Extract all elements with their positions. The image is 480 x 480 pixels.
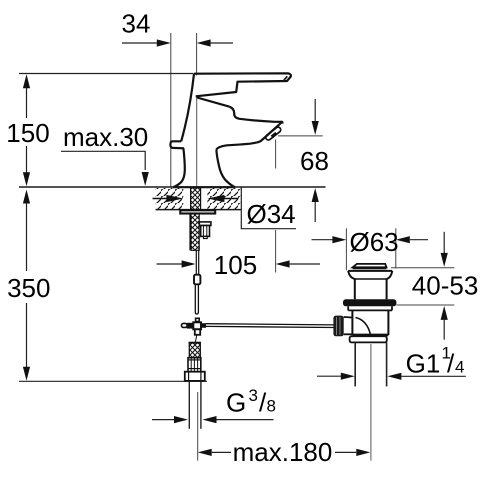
dim 34 left arrow bbox=[122, 39, 171, 46]
dim 105 extension line (spout outlet centre) bbox=[275, 140, 277, 169]
aerator dark slot bbox=[271, 132, 277, 138]
G3/8 right arrow with leader bbox=[203, 416, 274, 423]
adapter collar bbox=[188, 358, 201, 372]
svg-text:Ø34: Ø34 bbox=[247, 199, 296, 229]
knob stem bbox=[344, 317, 353, 334]
spout tip slant edge bbox=[257, 122, 283, 143]
faucet centreline bbox=[196, 97, 198, 187]
dim 34 extension line right (x=196.6) bbox=[196, 33, 198, 76]
dim 105 left arrow bbox=[157, 260, 196, 267]
dim 68 down arrow bbox=[312, 99, 319, 135]
dim Ø63 right arrow bbox=[396, 236, 428, 243]
dim 40-53 up arrow bbox=[441, 306, 448, 340]
side fitting body bbox=[201, 226, 210, 237]
dim Ø63 extension lines bbox=[345, 228, 347, 270]
pivot cross body bbox=[193, 322, 201, 329]
pull rod joint cylinder bbox=[194, 275, 200, 285]
deck hatched section left bbox=[156, 188, 184, 209]
washer under deck bbox=[180, 210, 215, 213]
faucet body right edge bbox=[216, 150, 235, 188]
max.180 line left with arrow bbox=[198, 449, 231, 456]
waste rubber seal bbox=[343, 299, 396, 306]
deck hatched section right bbox=[207, 188, 241, 209]
bottom reference line bbox=[19, 380, 207, 382]
dim 40-53 down arrow bbox=[441, 232, 448, 267]
side fitting notch bbox=[204, 236, 208, 238]
waste centreline bbox=[370, 344, 372, 461]
pivot top stub bbox=[196, 318, 200, 321]
svg-text:G1: G1 bbox=[406, 349, 441, 379]
svg-text:/: / bbox=[447, 349, 455, 379]
lever tip bevel line bbox=[284, 76, 288, 80]
dim 34 right arrow bbox=[197, 39, 233, 46]
waste neck line bbox=[355, 278, 387, 280]
svg-text:max.30: max.30 bbox=[63, 122, 148, 152]
dim 350 vertical line with arrows bbox=[23, 190, 30, 381]
faucet base left edge bbox=[173, 148, 185, 187]
dim 34 extension line left (x=170.8) bbox=[170, 33, 172, 187]
hex nut bbox=[185, 372, 205, 381]
svg-text:4: 4 bbox=[455, 358, 464, 377]
hole arrow right bbox=[207, 195, 238, 202]
waste tailpipe bbox=[355, 342, 386, 386]
dim 105 right arrow bbox=[276, 260, 320, 267]
svg-text:Ø63: Ø63 bbox=[350, 227, 399, 257]
deck top line bbox=[19, 186, 326, 188]
waste body bottom bbox=[352, 334, 388, 337]
label G1 1/4 bbox=[406, 344, 465, 379]
pivot left stub bbox=[182, 323, 188, 327]
wire to adapter bbox=[195, 335, 197, 343]
svg-text:68: 68 bbox=[300, 146, 329, 176]
dim 68 up arrow bbox=[312, 188, 319, 222]
waste lower body bbox=[352, 310, 388, 335]
faucet lever handle bbox=[194, 73, 291, 96]
svg-text:150: 150 bbox=[6, 118, 49, 148]
svg-text:G: G bbox=[226, 388, 246, 418]
svg-text:8: 8 bbox=[267, 397, 276, 416]
waste band below seal bbox=[348, 306, 392, 310]
max.30 leader underline bbox=[61, 151, 145, 170]
label G3/8 bbox=[226, 386, 276, 418]
G3/8 left arrow bbox=[152, 416, 188, 423]
faucet body left edge bbox=[181, 74, 194, 142]
G1 1/4 right arrow with leader bbox=[387, 373, 465, 380]
deck bottom line bbox=[156, 209, 242, 211]
svg-text:34: 34 bbox=[122, 9, 151, 39]
faucet base bottom bbox=[173, 186, 235, 188]
svg-text:350: 350 bbox=[7, 273, 50, 303]
ball housing arc bbox=[356, 318, 371, 336]
svg-text:40-53: 40-53 bbox=[412, 271, 479, 301]
supply pipe bbox=[188, 381, 190, 429]
waste collar bbox=[350, 336, 387, 342]
dim 150 top extension line bbox=[19, 73, 194, 75]
hole arrow left bbox=[153, 195, 184, 202]
spout underside bbox=[216, 143, 256, 150]
svg-text:max.180: max.180 bbox=[233, 437, 333, 467]
dim 40-53 extension lines bbox=[391, 267, 454, 269]
threaded shank below deck bbox=[191, 214, 199, 251]
adapter threaded section bbox=[189, 343, 200, 358]
waste plug dome bbox=[353, 264, 387, 269]
pivot bottom stub bbox=[195, 329, 200, 335]
side fitting inner lines bbox=[202, 226, 204, 237]
shank crosshatch inside deck hole bbox=[191, 188, 201, 210]
deck right edge / label leader bbox=[241, 187, 296, 229]
max.180 line right with arrow bbox=[335, 449, 370, 456]
pull rod upper segment bbox=[195, 250, 197, 274]
max.30 down arrow bbox=[142, 172, 149, 186]
pivot right wing bbox=[201, 323, 206, 328]
knurled knob bbox=[333, 316, 343, 337]
G1 1/4 left arrow bbox=[317, 373, 355, 380]
spout top edge bbox=[230, 107, 283, 122]
side fitting cap bbox=[199, 222, 211, 226]
aerator on spout tip bbox=[265, 126, 282, 141]
pull rod lower segment bbox=[195, 284, 198, 314]
dim 150 vertical line with arrows bbox=[23, 74, 30, 186]
adapter top cap bbox=[189, 342, 201, 344]
pivot left wing bbox=[187, 323, 194, 329]
supply pipe extension line bbox=[197, 392, 199, 461]
waste rim bbox=[348, 270, 392, 272]
shank left edge line bbox=[189, 214, 191, 251]
svg-text:105: 105 bbox=[214, 250, 257, 280]
dim Ø63 left arrow bbox=[312, 236, 347, 243]
linkage horizontal rod bbox=[206, 324, 334, 325]
body shoulder line bbox=[197, 98, 230, 107]
dim 68 spout extension line bbox=[278, 135, 323, 137]
faucet left tab bbox=[170, 141, 184, 148]
waste neck sides bbox=[348, 271, 355, 299]
svg-text:3: 3 bbox=[249, 386, 258, 405]
